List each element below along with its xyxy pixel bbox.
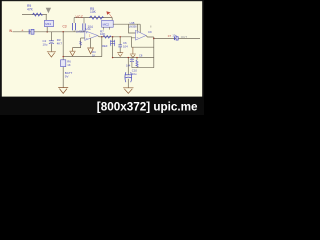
ground arrow (opamp1): [87, 48, 94, 54]
ground arrow (C2): [47, 52, 56, 57]
node feedback rail: [63, 56, 64, 57]
wire opamp1 output: [98, 36, 132, 37]
svg-text:C8: C8: [139, 54, 143, 58]
svg-text:OUT: OUT: [181, 35, 188, 39]
node feedback: [101, 36, 103, 38]
ground (gray triangle): [46, 8, 51, 14]
op-amp U1A: [85, 31, 98, 41]
resistor R1: [33, 13, 43, 16]
node divider: [62, 31, 64, 33]
microphone MIC2: [102, 20, 114, 27]
svg-text:10K: 10K: [90, 10, 97, 14]
node junction mic: [46, 31, 48, 33]
label R6 1K: [67, 60, 71, 67]
wire bottom rail 1: [113, 57, 154, 59]
label C2 10u: [43, 39, 48, 46]
svg-text:MIC2: MIC2: [103, 23, 110, 27]
capacitor C5 stub: [117, 36, 123, 56]
svg-text:U1A: U1A: [86, 27, 91, 31]
wire mic to signal: [46, 27, 48, 32]
svg-text:10K: 10K: [100, 32, 105, 36]
svg-text:MK1: MK1: [45, 22, 51, 26]
wire feedback rail: [63, 56, 102, 58]
wire opamp1 minus stub: [81, 37, 85, 39]
capacitor C3: [73, 18, 76, 32]
label U1A LM358: [76, 27, 91, 34]
node main vertical: [112, 36, 114, 38]
label BATT 9V: [65, 71, 73, 78]
ground arrow (bottom left): [58, 88, 68, 94]
power flag VCC: [106, 11, 112, 17]
resistor R7: [103, 36, 111, 39]
svg-text:1K: 1K: [67, 63, 71, 67]
wire output vertical: [153, 37, 155, 68]
capacitor C4: [83, 18, 85, 32]
label C6 104: [123, 41, 128, 48]
node output: [153, 38, 155, 40]
resistor R7 label: [100, 29, 105, 36]
capacitor C7: [174, 37, 178, 40]
wire opamp2 power: [138, 24, 141, 32]
ground arrow (inverting input): [69, 48, 75, 56]
node long vertical rail cross: [112, 57, 113, 58]
wire top-left rail: [22, 14, 47, 16]
border top: [0, 0, 204, 1]
wire vcc rail to mic2 box: [111, 18, 113, 21]
microphone MK1: [45, 20, 54, 26]
capacitor C8: [130, 58, 134, 68]
wire output: [154, 37, 200, 39]
wire to opamp2 minus: [129, 24, 136, 33]
label R4 1K: [92, 50, 96, 57]
svg-text:47K: 47K: [27, 7, 34, 11]
svg-text:VCC: VCC: [76, 15, 84, 19]
svg-text:10u: 10u: [132, 72, 137, 76]
wire main signal: [13, 31, 86, 33]
wire C2 branch: [50, 32, 52, 52]
resistor R5 label: [90, 7, 97, 14]
capacitor C10 (electrolytic): [125, 57, 132, 88]
resistor R5: [90, 16, 104, 19]
label C10 10u: [132, 68, 138, 75]
ground arrow (mid): [130, 47, 136, 57]
wire VCC rail: [74, 17, 112, 19]
wire bottom rail 2: [132, 67, 154, 69]
capacitor C6: [110, 40, 115, 46]
mic2 pins: [104, 27, 110, 30]
border right: [202, 0, 204, 115]
resistor R1 label: [27, 4, 34, 12]
svg-text:1K: 1K: [92, 54, 96, 58]
wire to mic box: [45, 15, 47, 21]
wire opamp1 ground pin: [90, 38, 92, 48]
wire long vertical: [112, 37, 114, 58]
resistor R9 (vertical): [136, 58, 138, 68]
svg-text:REF: REF: [102, 44, 108, 48]
wire to opamp2 plus: [132, 37, 136, 38]
svg-text:C3: C3: [63, 25, 67, 29]
resistor R6 (box): [61, 60, 66, 67]
border left: [0, 0, 2, 115]
svg-text:104: 104: [123, 45, 128, 49]
svg-text:LM358: LM358: [129, 26, 137, 29]
svg-text:9V: 9V: [65, 74, 69, 78]
svg-text:C9: C9: [148, 30, 152, 34]
wire box2 to node: [113, 23, 140, 25]
ground arrow (bottom mid): [123, 88, 133, 94]
capacitor C1: [29, 29, 34, 34]
bottom watermark bar: [0, 97, 204, 115]
svg-text:LM358: LM358: [76, 29, 84, 33]
resistor R2 (on tap): [80, 41, 82, 45]
wire feedback down: [101, 37, 103, 57]
label U1B LM358: [129, 22, 137, 28]
svg-text:[800x372] upic.me: [800x372] upic.me: [97, 100, 198, 113]
wire feedback tap: [73, 38, 81, 48]
svg-text:4K7: 4K7: [57, 42, 63, 46]
wire feedback loop2: [132, 38, 154, 47]
capacitor C2: [49, 41, 54, 44]
node bottom rail: [136, 57, 137, 58]
wire divider vertical: [62, 32, 64, 88]
label R3 4K7: [57, 38, 63, 45]
op-amp U2B: [136, 30, 147, 40]
svg-text:10u: 10u: [43, 43, 48, 47]
wire opamp2 output stub: [146, 36, 154, 38]
